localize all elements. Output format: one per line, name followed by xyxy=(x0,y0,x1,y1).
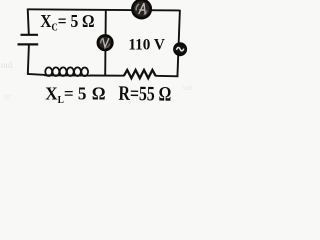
svg-text:uc: uc xyxy=(4,92,12,101)
svg-text:110 V: 110 V xyxy=(128,37,165,54)
wire middle vertical xyxy=(104,10,107,76)
wire top horizontal xyxy=(28,9,180,10)
svg-text:oul: oul xyxy=(1,60,13,70)
resistor R zigzag xyxy=(124,70,156,78)
AC source ~ xyxy=(174,43,186,55)
wire bottom left xyxy=(27,74,45,75)
voltmeter V1 xyxy=(98,35,113,50)
wire bottom right xyxy=(155,75,178,78)
wire right vertical xyxy=(177,10,180,77)
inductor L baseline xyxy=(45,74,91,76)
wire left vertical upper xyxy=(28,9,29,35)
inductor L loops xyxy=(45,67,88,76)
wire bottom middle xyxy=(90,75,125,77)
ammeter A1 xyxy=(132,0,150,18)
svg-text:R=55 Ω: R=55 Ω xyxy=(118,83,171,103)
capacitor C bottom plate xyxy=(18,43,39,45)
capacitor C top plate xyxy=(21,34,39,36)
svg-text:ust: ust xyxy=(183,83,193,92)
svg-text:XC= 5 Ω: XC= 5 Ω xyxy=(40,11,94,34)
svg-text:XL= 5 Ω: XL= 5 Ω xyxy=(45,84,105,103)
wire left vertical lower xyxy=(28,45,29,75)
